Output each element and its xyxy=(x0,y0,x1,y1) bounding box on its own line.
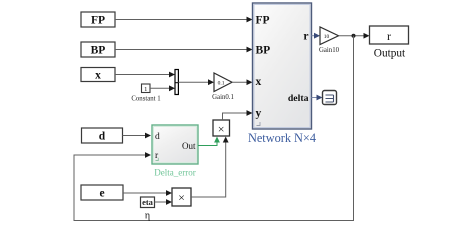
svg-text:BP: BP xyxy=(256,44,271,56)
wire Mux to Gain0.1 xyxy=(178,79,214,85)
gain Gain10 xyxy=(319,27,340,54)
constant block Constant 1 xyxy=(131,84,160,103)
wire Gain0.1 to Network x xyxy=(232,79,253,85)
wire product lower to product upper xyxy=(191,137,229,198)
svg-text:η: η xyxy=(145,211,150,222)
wire BP to Network xyxy=(115,47,253,53)
svg-text:Gain10: Gain10 xyxy=(319,47,340,54)
display block xyxy=(323,91,337,105)
svg-text:r: r xyxy=(303,30,308,42)
wire e to product lower xyxy=(123,190,172,196)
svg-text:FP: FP xyxy=(91,15,105,27)
source block BP xyxy=(81,42,115,57)
source block e xyxy=(81,185,123,200)
wire Gain10 to Output block xyxy=(339,33,370,39)
wire d to Delta_error xyxy=(123,133,152,139)
svg-text:1: 1 xyxy=(144,86,147,93)
wire x to Mux xyxy=(115,72,175,78)
svg-text:10: 10 xyxy=(324,34,330,40)
svg-text:d: d xyxy=(155,132,160,142)
svg-text:x: x xyxy=(95,70,101,82)
svg-text:FP: FP xyxy=(256,14,270,26)
svg-text:r: r xyxy=(387,29,391,43)
wire feedback r to Delta_error xyxy=(74,36,354,221)
svg-text:Out: Out xyxy=(182,141,196,151)
svg-text:e: e xyxy=(99,188,104,200)
subsystem Network Nx4 xyxy=(248,3,316,145)
product block upper xyxy=(213,120,230,136)
wire Constant 1 to Mux xyxy=(150,85,175,91)
svg-text:Gain0.1: Gain0.1 xyxy=(212,94,234,101)
svg-text:Constant 1: Constant 1 xyxy=(131,96,160,103)
svg-text:x: x xyxy=(256,76,262,88)
sink block r (Output) xyxy=(370,26,409,60)
svg-text:Delta_error: Delta_error xyxy=(154,168,195,178)
svg-text:d: d xyxy=(99,131,106,143)
source block x xyxy=(81,68,115,82)
wire Network r to Gain10 xyxy=(312,33,321,39)
node junction on r wire xyxy=(352,34,356,38)
gain Gain0.1 xyxy=(212,73,234,101)
svg-text:BP: BP xyxy=(91,45,106,57)
svg-text:0.1: 0.1 xyxy=(218,80,225,86)
svg-text:eta: eta xyxy=(142,197,154,207)
svg-text:delta: delta xyxy=(288,93,309,104)
wire product to Network y xyxy=(223,110,253,120)
wire Delta_error Out to product xyxy=(198,137,220,146)
source block d xyxy=(82,128,123,143)
subsystem Delta_error xyxy=(152,125,198,178)
wire FP to Network xyxy=(115,17,253,23)
svg-text:y: y xyxy=(256,108,262,120)
svg-text:Output: Output xyxy=(374,48,406,60)
wire Network delta to display xyxy=(312,95,323,101)
product block lower xyxy=(172,188,191,206)
svg-text:Network N×4: Network N×4 xyxy=(248,131,316,145)
svg-text:×: × xyxy=(218,122,225,136)
svg-text:×: × xyxy=(178,190,185,204)
wire eta to product lower xyxy=(155,199,173,205)
mux xyxy=(175,70,178,95)
source block FP xyxy=(81,12,115,27)
constant block eta xyxy=(141,197,155,222)
